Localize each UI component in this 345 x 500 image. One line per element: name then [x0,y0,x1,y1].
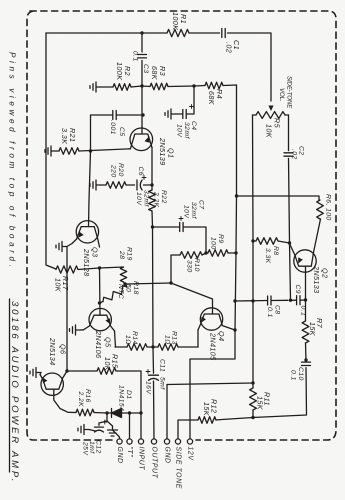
wire node to R3 [142,85,150,88]
terminal "T" [126,439,133,458]
svg-text:330: 330 [186,260,193,273]
wire R4 to 12V rail [223,85,237,196]
label R8 3.3K [264,246,279,264]
wire top rail right [228,33,272,101]
node G [234,251,237,254]
svg-text:2N5133: 2N5133 [312,265,321,294]
svg-text:.001: .001 [109,120,116,135]
label R3 68K [150,66,167,81]
wire node V to R15 [67,370,97,372]
ground for R20 [90,180,101,190]
svg-text:16V: 16V [145,381,152,395]
svg-text:2.2K: 2.2K [77,391,84,408]
resistor R6 [317,200,324,219]
node B [140,84,143,87]
svg-text:3.3K: 3.3K [264,248,271,264]
node L [233,328,236,331]
note: Pins viewed from top of board. [8,52,17,271]
svg-text:C9: C9 [294,285,301,295]
ground for R2 [90,82,101,92]
node J [98,301,101,304]
svg-text:.02: .02 [291,149,298,160]
svg-text:"T": "T" [126,447,133,458]
label C1 .02 [225,40,242,53]
resistor R20 [106,182,126,189]
label C11 5mf 16V [145,359,166,395]
resistor R2 [113,84,131,91]
plus sign C11 [146,370,150,374]
wire 301 row [235,300,306,301]
label R13 1ohm [164,331,178,345]
wire base rail [115,346,127,348]
wire R7 to C10 [305,343,308,361]
resistor R15 [97,368,116,375]
svg-text:2N5139: 2N5139 [158,137,167,166]
diode D1 [112,409,122,418]
node S [304,358,307,361]
node O [251,239,254,242]
ground for Q5 [70,325,81,335]
wire Q2 base [305,266,307,300]
terminal GND [164,439,171,464]
capacitor C7 [180,223,183,232]
svg-text:28: 28 [118,250,125,259]
label C9 0.1 [294,285,307,317]
resistor R14 [127,344,147,351]
svg-text:R18: R18 [132,281,139,295]
svg-text:100K: 100K [171,12,180,31]
wire 12V rail [190,196,237,441]
svg-text:C2: C2 [298,146,305,156]
svg-text:220: 220 [110,164,117,178]
title: 30186 AUDIO POWER AMP. [9,301,20,484]
svg-text:10V: 10V [176,124,183,138]
resistor R7 [302,321,309,343]
wire node E down [152,227,155,347]
resistor R4 [205,82,223,89]
node K [151,345,154,348]
resistor R17 [56,266,78,273]
terminal INPUT [138,439,145,470]
label R1 100K [171,12,188,31]
wire C11 to OUTPUT [153,381,156,441]
capacitor C1 [222,29,225,38]
svg-text:NTC: NTC [117,284,124,299]
node base junction [89,149,92,152]
wire 196 rail [237,196,320,200]
svg-text:R13: R13 [171,331,178,345]
label C2 .02 [291,146,305,160]
svg-text:15K: 15K [202,402,211,417]
label D1 1N4154 [118,385,133,411]
svg-text:OUTPUT: OUTPUT [151,447,158,479]
label R17 10K [54,276,71,293]
wire C12 branch [99,413,107,425]
wire R13 to Q4 emitter [178,346,198,348]
svg-text:0.1: 0.1 [132,51,139,62]
svg-text:10V: 10V [183,205,190,219]
wire R9 to rail [228,252,236,254]
wire node H to Q4 base [171,283,213,314]
dashed border frame [27,11,336,440]
ground for C4 [165,109,176,119]
wire Q1 emitter [151,148,153,186]
capacitor C5 [113,111,116,120]
label C7 32mf 10V [183,200,205,219]
wire left frame [46,33,56,269]
svg-text:10K: 10K [103,357,112,372]
svg-text:R20: R20 [117,163,124,177]
svg-text:1N4154: 1N4154 [118,385,125,411]
wire R19 R18 link [124,282,128,287]
wire R2 to node [131,86,142,87]
wire gnd rail to GND terminal [166,385,168,442]
label R7 15K [308,318,324,337]
svg-text:C3: C3 [142,64,149,74]
svg-text:10K: 10K [54,278,63,293]
svg-text:Q5: Q5 [104,337,113,348]
node A [140,31,143,34]
ground for Q3 [56,242,67,252]
label C3 0.1 [132,51,150,74]
svg-text:R14: R14 [131,331,138,345]
svg-text:R6, 100: R6, 100 [325,194,332,221]
label C5 .001 [109,120,125,137]
svg-text:C5: C5 [118,127,125,137]
svg-text:C7: C7 [198,200,205,210]
wire R8 ends [253,241,290,243]
node R17 junction [98,266,101,269]
capacitor C8 [268,296,271,305]
wire ground rail [167,383,253,385]
node D [150,183,153,186]
svg-text:2N5128: 2N5128 [82,248,91,277]
svg-text:12V: 12V [187,447,194,462]
svg-text:50: 50 [125,284,132,292]
svg-text:5mf: 5mf [159,377,166,390]
wire R21 to Q1 collector [79,149,130,151]
wire R14 R13 link [147,346,158,348]
svg-text:3.3K: 3.3K [60,128,69,145]
svg-text:32mf: 32mf [143,190,150,207]
svg-text:R16: R16 [84,389,91,403]
node H [169,281,172,284]
capacitor C10 [302,362,311,365]
label C8 0.1 [266,305,281,318]
svg-text:R22: R22 [160,190,167,204]
capacitor C3 [138,55,147,58]
label R20 220 [110,163,125,178]
wire R5 left leg [252,115,255,241]
transistor Q2 [290,219,321,272]
svg-text:68K: 68K [150,66,159,81]
transistor Q4 [198,308,235,330]
wire Q3 base [89,151,91,227]
node N [288,241,291,244]
resistor R18 thermistor [103,286,127,302]
resistor R11 [250,388,257,410]
potentiometer R5 [253,112,289,119]
svg-text:25V: 25V [82,441,89,456]
svg-text:15K: 15K [256,396,265,411]
ground for C12 right [107,421,118,436]
label R10 330 [186,258,201,273]
wire R10 to node F [202,253,206,255]
label R6 100 [325,194,332,221]
terminal 12V [187,439,194,461]
label R11 15K [256,392,272,411]
label R22 2.2K [153,190,168,208]
node V [65,369,68,372]
resistor R10 [180,252,202,259]
svg-text:C4: C4 [190,121,197,131]
svg-text:2N5134: 2N5134 [48,337,57,366]
svg-text:R9: R9 [217,234,224,244]
svg-text:C11: C11 [159,359,166,372]
wire Q3 to Q5 [99,268,102,315]
transistor Q6 [40,371,67,395]
wire node H left [126,283,171,284]
resistor R8 [256,238,278,245]
resistor R3 [150,83,168,90]
svg-text:INPUT: INPUT [138,447,145,471]
svg-text:2.2K: 2.2K [153,191,160,208]
node C5 tap [141,113,144,116]
wire Q3 emitter [67,244,72,372]
svg-text:100: 100 [210,237,217,250]
label R18 50 NTC [117,281,139,299]
plus sign C7 [179,217,183,221]
capacitor C11 [149,375,159,380]
label R2 100K [115,62,132,81]
node X [105,411,108,414]
wire C6 to node D [144,184,153,186]
label R19 28 [118,247,133,261]
svg-text:68K: 68K [207,91,216,106]
svg-text:2N4106: 2N4106 [94,330,103,359]
resistor R9 [208,250,228,257]
label SIDE-TONE VOL. [278,76,293,109]
svg-text:R19: R19 [126,247,133,261]
transistor Q1 [130,128,153,151]
wire C2 down [289,158,291,300]
ground for C12 left [78,425,96,435]
wire node C to R4 [194,85,205,88]
wire x253 mid [252,241,254,383]
node U [251,416,254,419]
capacitor C6 [137,180,142,190]
label R12 15K [202,399,219,417]
svg-text:.02: .02 [225,42,234,53]
wire C7 to corner [184,227,207,253]
node R2b [289,299,292,302]
wire R11 legs [252,383,254,418]
wire top rail [46,32,220,34]
label R4 68K [207,89,224,106]
wire R5 right leg [288,115,290,151]
wire R22 to node E [151,211,154,227]
label Q4 2N4105 [209,331,227,361]
svg-text:0.1: 0.1 [290,370,297,381]
svg-text:VOL.: VOL. [278,88,285,102]
wire GND1 terminal [113,430,120,442]
svg-text:R8: R8 [272,246,279,256]
wire Q1 base [141,86,143,134]
label C10 0.1 [290,367,305,381]
capacitor C2 [284,153,293,156]
wire Q6 gnd stem [40,373,41,375]
label R14 1ohm [124,331,138,345]
svg-text:15K: 15K [308,322,317,337]
svg-text:C10: C10 [297,367,304,381]
node P [233,299,236,302]
wire R10 left leg [171,255,180,283]
node R [304,298,307,301]
plus sign C4 [190,105,194,109]
title underline [9,299,11,472]
wire node E to C7 [153,226,180,228]
label Q5 2N4106 [94,330,113,359]
plus sign C12 [103,420,107,424]
resistor R21 [59,148,79,155]
wire C4 branch [187,86,194,114]
node Y [128,411,131,414]
terminal GND [116,439,123,464]
label R15 10K [103,354,120,372]
svg-text:2N4105: 2N4105 [209,332,218,361]
wire R20 to C6 [126,184,135,186]
terminal OUTPUT [151,439,158,479]
wire Q2 base to R7 [305,300,307,321]
wire R12 right [216,418,253,421]
wire R15 right [116,371,141,441]
label C6 32mf 10V [135,167,150,208]
node C [192,84,195,87]
plus sign C6 [142,176,146,180]
wire gnd to R2 [101,86,113,88]
capacitor C12 [95,427,104,432]
wire R18 to Q5 collector [100,302,104,304]
wire output line [152,347,155,373]
capacitor C9 [297,296,300,305]
label R21 3.3K [60,128,77,145]
resistor R16 [76,409,94,416]
label Q1 2N5139 [158,137,176,166]
label Q6 2N5134 [48,337,68,366]
svg-text:GND: GND [116,447,123,464]
transistor Q3 [72,221,100,247]
svg-text:Q6: Q6 [59,344,68,354]
wiper arrow [268,106,273,112]
svg-text:1Ω: 1Ω [124,335,131,345]
label C4 32mf 10V [176,121,198,139]
wire gnd to R20 [101,184,106,186]
label C12 1mf 25V [82,440,102,456]
wire R3 to node C [168,85,194,88]
svg-text:D1: D1 [125,390,132,400]
svg-text:SIDE TONE: SIDE TONE [175,447,182,489]
wire C10 down [253,368,307,418]
svg-text:10V: 10V [135,192,142,206]
svg-text:100K: 100K [115,62,124,81]
wire Q6 base to R16 [54,389,76,412]
svg-text:C8: C8 [274,305,281,315]
svg-text:32mf: 32mf [183,122,190,139]
svg-text:SIDE-TONE: SIDE-TONE [286,76,293,109]
node Q [251,299,254,302]
node F [204,251,207,254]
label Q2 2N5133 [312,265,330,294]
svg-text:30186 AUDIO POWER AMP.: 30186 AUDIO POWER AMP. [9,301,20,484]
node M [235,194,238,197]
wire C4 to gnd [176,113,182,115]
wire C3 stub [141,33,143,86]
wire Q5 collector leg [115,331,116,347]
capacitor C4 [183,110,186,119]
wire Q5 emitter to gnd [81,329,84,331]
wire gnd to R21 [56,150,59,152]
transistor Q5 [84,308,115,331]
wire D1 wires [107,412,141,414]
wire T terminal [129,413,131,441]
node I [123,282,126,285]
svg-text:C6: C6 [137,167,144,177]
resistor R12 [198,417,216,424]
resistor R1 [167,29,189,36]
resistor R19 [120,267,126,282]
node T [251,381,254,384]
label Q3 2N5128 [82,247,100,277]
svg-text:32mf: 32mf [190,202,197,219]
wire Q4 emitter leg [197,330,199,347]
wire R6 to Q2 collector [319,218,322,220]
svg-text:GND: GND [164,447,171,464]
svg-text:R10: R10 [193,258,200,272]
svg-text:1Ω: 1Ω [164,335,171,345]
wire node to R19 [100,267,124,268]
wire R12 to side tone [178,420,198,441]
resistor R13 [158,344,178,351]
terminal SIDE TONE [175,439,182,489]
svg-text:10K: 10K [265,124,274,139]
ground for R21 [45,146,56,156]
node W [139,411,142,414]
ground for Q6 [30,368,41,378]
node E [151,225,154,228]
wire C5 link [91,115,144,151]
wire node D to R22 [151,185,153,190]
wire R16 to node [94,412,107,415]
wire R17 to node [78,268,100,270]
svg-text:Pins viewed from top of board.: Pins viewed from top of board. [8,52,17,271]
label R5 10K [265,118,282,139]
resistor R22 [149,190,156,211]
svg-text:0.1: 0.1 [266,307,273,318]
label R9 100 [210,234,225,250]
label R16 2.2K [77,389,91,407]
